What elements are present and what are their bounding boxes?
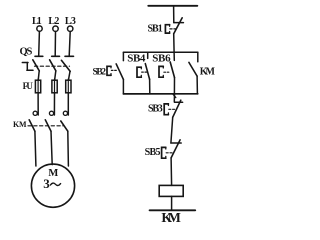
coil KM body <box>159 185 183 196</box>
pushbutton SB5 blade <box>171 140 180 158</box>
switch QS dashed link <box>35 65 70 67</box>
contactor KM dashed link <box>28 125 63 127</box>
fuse FU2 body <box>52 80 57 93</box>
wire SB2 branch top stub <box>122 52 124 60</box>
pushbutton SB3 dashed link <box>169 108 175 110</box>
wire L2 to QS <box>54 32 56 56</box>
wire KM contact3 to motor <box>67 131 70 166</box>
switch QS pole3 blade <box>61 60 70 71</box>
svg-text:SB4: SB4 <box>127 53 146 65</box>
pushbutton SB3 actuator <box>164 104 168 115</box>
wire FU2 to KM contact 2 <box>53 94 55 115</box>
wire FU3 element <box>67 79 69 94</box>
wire KM branch top stub <box>197 52 199 62</box>
svg-text:SB1: SB1 <box>148 24 163 35</box>
switch QS handle <box>22 62 28 64</box>
svg-text:KM: KM <box>200 67 216 78</box>
wire QS pole1 to FU1 <box>38 71 39 80</box>
pushbutton SB2 blade <box>116 64 123 80</box>
wire FU1 to KM contact 1 <box>37 94 39 115</box>
wire SB3 to SB5 <box>171 117 173 143</box>
svg-text:3: 3 <box>43 176 50 191</box>
wire KM contact1 to motor <box>35 131 36 166</box>
pushbutton SB5 actuator <box>162 147 166 158</box>
group bottom rail <box>123 93 197 95</box>
wire FU2 element <box>54 79 56 94</box>
contactor KM contact2 terminal circle <box>49 111 53 115</box>
wire FU3 to KM contact 3 <box>67 94 69 115</box>
wire SB6 branch top stub <box>173 52 175 60</box>
contact KM auxiliary blade <box>189 62 197 76</box>
svg-text:KM: KM <box>13 120 27 129</box>
contactor KM contact1 terminal circle <box>33 111 37 115</box>
wire FU1 element <box>37 79 39 94</box>
switch QS pole1 blade <box>33 60 40 71</box>
switch QS pole2 blade <box>50 60 56 71</box>
pushbutton SB5 NC fixed bar <box>171 142 181 144</box>
group top line <box>123 51 197 53</box>
svg-text:QS: QS <box>20 47 33 58</box>
switch QS pole1 fixed bar <box>35 55 43 57</box>
switch QS pole3 fixed bar <box>65 55 74 57</box>
fuse FU1 body <box>35 80 40 93</box>
wire SB5 to coil KM <box>170 158 173 186</box>
wire SB4 blade to bottom rail <box>149 79 151 94</box>
terminal circle L3 <box>68 26 73 31</box>
wire SB1 to group top line <box>173 34 175 53</box>
svg-text:FU: FU <box>23 81 34 91</box>
terminal circle L2 <box>53 26 58 31</box>
svg-text:SB2: SB2 <box>93 68 107 78</box>
wire SB2 blade to bottom rail <box>122 79 124 94</box>
wire junction tick <box>173 94 176 97</box>
pushbutton SB1 blade <box>174 18 183 34</box>
pushbutton SB4 blade <box>145 64 149 80</box>
motor M circle <box>31 164 74 207</box>
pushbutton SB3 blade <box>173 100 181 117</box>
switch QS pole2 fixed bar <box>52 55 60 57</box>
contactor KM contact3 terminal circle <box>63 111 67 115</box>
pushbutton SB1 actuator <box>165 25 169 33</box>
wire KM auxiliary to bottom rail <box>196 76 198 94</box>
pushbutton SB4 actuator <box>137 67 141 77</box>
pushbutton SB2 dashed link <box>111 69 117 71</box>
pushbutton SB6 blade <box>170 62 174 78</box>
wire QS pole2 to FU2 <box>55 71 56 80</box>
pushbutton SB6 dashed link <box>164 71 170 73</box>
svg-text:KM: KM <box>161 210 181 225</box>
contactor KM contact3 blade <box>61 121 68 131</box>
pushbutton SB1 NC fixed bar <box>174 22 184 24</box>
svg-text:SB3: SB3 <box>148 103 163 114</box>
pushbutton SB3 NC fixed bar <box>175 101 183 103</box>
wire L1 to QS <box>38 32 41 56</box>
pushbutton SB2 actuator <box>107 66 111 75</box>
wire bottom rail to SB3 <box>173 94 175 102</box>
svg-text:L2: L2 <box>48 16 59 27</box>
control circuit top rail <box>148 5 197 7</box>
wire QS pole3 to FU3 <box>68 71 70 80</box>
wire L3 to QS <box>69 32 70 56</box>
wire SB4 branch top stub <box>147 52 149 58</box>
pushbutton SB1 dashed link <box>170 28 176 30</box>
svg-text:M: M <box>48 168 58 179</box>
wire SB6 blade through bottom rail <box>173 78 175 95</box>
pushbutton SB6 actuator <box>159 66 163 77</box>
contactor KM contact2 blade <box>45 120 51 131</box>
svg-text:SB5: SB5 <box>145 147 161 158</box>
wire coil KM to bottom rail <box>171 196 173 210</box>
pushbutton SB4 dashed link <box>142 71 147 73</box>
terminal circle L1 <box>37 26 42 31</box>
fuse FU3 body <box>66 80 71 93</box>
pushbutton SB5 dashed link <box>166 152 172 154</box>
control circuit bottom rail <box>150 209 196 211</box>
contactor KM contact1 blade <box>29 120 35 131</box>
svg-text:SB6: SB6 <box>152 53 171 65</box>
wire top rail to SB1 <box>173 6 175 23</box>
wire KM contact2 to motor <box>51 131 52 164</box>
